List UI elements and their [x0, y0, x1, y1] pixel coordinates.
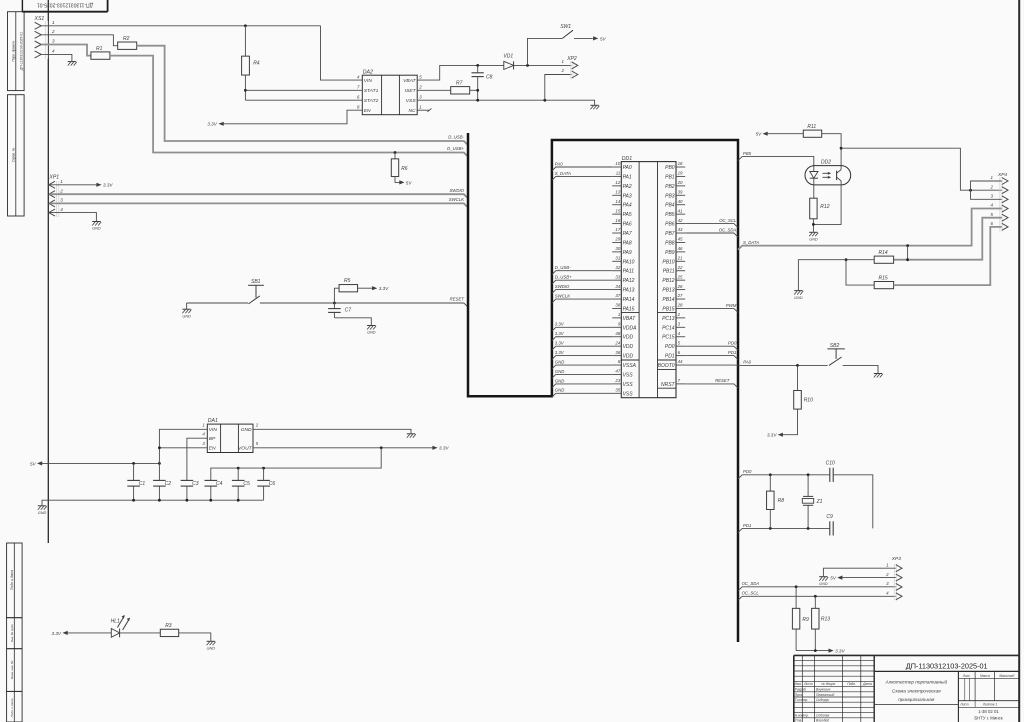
svg-text:3.3V: 3.3V	[555, 331, 565, 336]
svg-text:XP3: XP3	[891, 556, 901, 562]
wire PA0 net from border to SB2	[742, 364, 827, 366]
svg-text:HL1: HL1	[111, 619, 120, 625]
svg-text:Внукович: Внукович	[816, 688, 831, 692]
power arrow 5V at SW1	[593, 36, 598, 40]
svg-text:Н.контр.: Н.контр.	[795, 714, 809, 718]
wire R4 bottom to STAT2	[244, 75, 246, 100]
svg-text:NC: NC	[409, 108, 417, 114]
title block lit massa masshtab	[958, 671, 1019, 707]
svg-text:Утв.: Утв.	[795, 719, 803, 722]
svg-text:PA5: PA5	[623, 212, 632, 218]
wire C10 to right link	[833, 475, 873, 529]
node C8 top junction	[476, 64, 479, 67]
connector XP4	[990, 172, 1008, 232]
svg-text:XP2: XP2	[566, 56, 577, 62]
svg-text:C8: C8	[486, 75, 493, 81]
op-amp U-style IC DA2 charge controller	[357, 70, 422, 115]
svg-text:R6: R6	[401, 166, 408, 172]
svg-text:Схема электрическая: Схема электрическая	[892, 688, 941, 693]
node XS1 pin1 / R4 junction	[244, 24, 247, 27]
svg-text:23: 23	[614, 378, 620, 383]
wire R2 to D_USB- border entry	[137, 46, 468, 145]
wire STAT2	[245, 99, 362, 101]
node PD0 R8 tap	[769, 473, 772, 476]
wire R5 to 3.3V	[358, 287, 373, 289]
svg-text:БНТУ г. Минск: БНТУ г. Минск	[974, 715, 1002, 720]
wire R4 top	[244, 26, 246, 56]
node PD1 Z1 tap	[807, 527, 810, 530]
svg-text:OC_SCL: OC_SCL	[719, 218, 737, 223]
svg-text:Взам. инв. №: Взам. инв. №	[10, 660, 14, 679]
svg-text:OC_SDA: OC_SDA	[719, 227, 737, 232]
wire R10 bottom to 3.3V	[782, 409, 798, 435]
svg-text:DD2: DD2	[821, 160, 831, 166]
svg-text:C3: C3	[192, 481, 199, 487]
capacitor C4	[205, 480, 223, 500]
node cap bottom junction	[132, 499, 135, 502]
svg-text:15: 15	[615, 208, 620, 213]
svg-text:R1: R1	[96, 46, 103, 52]
node R14 R15 junction	[845, 258, 848, 261]
svg-text:PA13: PA13	[623, 288, 635, 294]
svg-text:R11: R11	[807, 124, 816, 130]
svg-text:VSS: VSS	[623, 382, 634, 388]
svg-text:4: 4	[886, 591, 889, 596]
ground at SB2	[874, 373, 882, 375]
wire R6 top	[394, 153, 396, 159]
svg-text:28: 28	[677, 303, 683, 308]
svg-text:5V: 5V	[830, 576, 837, 581]
capacitor C2	[153, 463, 171, 500]
svg-text:2: 2	[990, 184, 994, 189]
svg-text:OC_SCL: OC_SCL	[742, 591, 760, 596]
microcontroller DD1 body	[621, 156, 676, 398]
wire XS1 pin4 to ground	[41, 54, 72, 61]
node PD0 Z1 tap	[807, 473, 810, 476]
svg-text:GND: GND	[555, 369, 565, 374]
svg-text:13: 13	[615, 189, 620, 194]
capacitor C10	[826, 461, 835, 482]
wire DA1 VOUT to 3.3V	[253, 447, 433, 449]
wire STAT1	[245, 89, 362, 91]
wire DA2 ISET to R7	[417, 89, 451, 91]
svg-text:3.3V: 3.3V	[207, 122, 217, 127]
svg-text:S_DATA: S_DATA	[555, 171, 571, 176]
svg-text:25: 25	[677, 274, 683, 279]
capacitor C1	[127, 463, 145, 500]
svg-text:PB8: PB8	[665, 240, 675, 246]
svg-text:SWCLK: SWCLK	[555, 293, 571, 298]
svg-text:D_USB-: D_USB-	[555, 265, 571, 270]
resistor R14	[874, 250, 893, 263]
wire XP1 pin1 to 3.3V	[50, 184, 98, 186]
wire 5V rail to C2/VIN node	[42, 462, 160, 464]
svg-text:4: 4	[52, 48, 55, 53]
svg-text:R15: R15	[879, 276, 888, 282]
connector XP1	[48, 175, 63, 217]
wire R15 left leg	[846, 260, 874, 285]
svg-text:C2: C2	[165, 481, 172, 487]
svg-text:VSSA: VSSA	[623, 363, 637, 369]
crystal resonator Z1	[802, 475, 822, 529]
wire DD2 emitter down	[813, 185, 841, 225]
wire XP4 pin1 pin3 bracket	[971, 181, 1002, 199]
svg-text:5: 5	[991, 212, 994, 217]
wire OC_SDA border entry to XP3 pin3	[738, 587, 896, 591]
svg-text:RESET: RESET	[450, 297, 465, 302]
svg-text:PB14: PB14	[662, 297, 674, 303]
svg-text:PA0: PA0	[623, 165, 632, 171]
svg-text:44: 44	[678, 359, 683, 364]
svg-text:Пров.: Пров.	[795, 693, 804, 697]
svg-text:PB13: PB13	[662, 288, 674, 294]
svg-text:Подп.: Подп.	[847, 682, 856, 686]
svg-text:SB1: SB1	[251, 279, 261, 285]
svg-text:D_USB+: D_USB+	[447, 146, 464, 151]
svg-text:PB5: PB5	[743, 151, 752, 156]
svg-text:3.3V: 3.3V	[767, 433, 777, 438]
svg-text:20: 20	[677, 180, 683, 185]
svg-text:3: 3	[60, 198, 63, 203]
svg-text:48: 48	[615, 331, 620, 336]
svg-text:32: 32	[615, 265, 620, 270]
svg-text:11: 11	[616, 171, 621, 176]
svg-text:43: 43	[678, 227, 683, 232]
svg-text:6: 6	[678, 350, 681, 355]
title block left table grid	[794, 655, 874, 722]
node cap bottom junction	[158, 499, 161, 502]
svg-text:3.3V: 3.3V	[379, 286, 389, 291]
svg-text:VSS: VSS	[623, 372, 634, 378]
svg-text:DD1: DD1	[622, 156, 632, 162]
svg-text:5: 5	[419, 75, 422, 80]
ground at C7	[367, 325, 375, 327]
svg-text:D_USB+: D_USB+	[555, 275, 572, 280]
node XP4 pin2 junction	[969, 189, 972, 192]
node C2 VIN junction	[158, 462, 161, 465]
drawing frame left border	[47, 0, 49, 543]
svg-text:9: 9	[618, 322, 621, 327]
svg-text:C1: C1	[139, 481, 146, 487]
corner stamp box with inverted designation	[22, 0, 107, 12]
svg-text:R10: R10	[804, 398, 813, 404]
title block outline	[794, 655, 1019, 722]
svg-text:VIN: VIN	[364, 78, 373, 84]
svg-text:Подп. и дата: Подп. и дата	[10, 698, 14, 717]
LED HL1	[111, 619, 120, 638]
title block document name	[874, 679, 958, 705]
wire DA2 VSS rail to ground	[417, 100, 594, 105]
svg-text:PD1: PD1	[743, 523, 752, 528]
svg-text:5: 5	[256, 441, 259, 446]
svg-text:PA10: PA10	[623, 259, 635, 265]
svg-text:1: 1	[52, 20, 55, 25]
svg-text:7: 7	[678, 378, 681, 383]
left margin box Inv. no dubl.	[7, 618, 23, 649]
svg-text:PC15: PC15	[662, 335, 675, 341]
svg-text:14: 14	[615, 199, 620, 204]
svg-text:38: 38	[615, 303, 620, 308]
svg-text:GND: GND	[207, 647, 216, 651]
svg-text:PA7: PA7	[623, 231, 632, 237]
node S_DATA R14 tap	[906, 244, 909, 247]
svg-text:XP1: XP1	[48, 175, 59, 181]
svg-text:2: 2	[561, 68, 565, 73]
resistor R5	[339, 278, 358, 292]
svg-text:3: 3	[678, 322, 681, 327]
resistor R15	[874, 276, 893, 289]
resistor R13	[812, 596, 831, 650]
node C1 tap	[132, 462, 135, 465]
svg-text:45: 45	[678, 237, 683, 242]
svg-text:R14: R14	[879, 250, 888, 256]
node PD1 R8 tap	[769, 527, 772, 530]
wire SB1 to ground	[186, 303, 188, 309]
svg-text:36: 36	[615, 350, 620, 355]
wire DD1 PB7 to OC_SDA border entry	[685, 233, 738, 237]
svg-text:1: 1	[562, 59, 565, 64]
wire XS1 pin2 to R2	[41, 35, 117, 46]
power arrow 3.3V at HL1	[63, 631, 68, 635]
node cap bottom junction	[209, 499, 212, 502]
svg-text:Разраб.: Разраб.	[795, 688, 807, 692]
svg-text:C9: C9	[826, 514, 833, 520]
svg-text:30: 30	[615, 246, 620, 251]
wire DD1 NRST to RESET border entry	[685, 384, 738, 388]
connector XP2	[561, 56, 578, 79]
svg-text:ДП-1130312103-2025-01: ДП-1130312103-2025-01	[37, 1, 93, 7]
svg-text:S_DATA: S_DATA	[743, 240, 759, 245]
svg-text:PA1: PA1	[623, 174, 632, 180]
svg-text:Лист: Лист	[959, 703, 969, 707]
svg-text:Z1: Z1	[816, 499, 823, 505]
svg-text:Подп. и дата: Подп. и дата	[10, 570, 14, 590]
svg-text:PD0: PD0	[728, 340, 737, 345]
svg-text:SW1: SW1	[560, 24, 571, 30]
wire capacitor bottom ground bus	[42, 500, 264, 505]
svg-text:Лист: Лист	[803, 682, 813, 686]
resistor R2	[118, 36, 137, 49]
svg-text:STAT1: STAT1	[364, 88, 379, 94]
svg-text:GND: GND	[819, 582, 828, 586]
LED HL1 light arrows	[117, 615, 130, 630]
wire DA1 EN to VIN riser	[159, 447, 207, 449]
svg-text:VDDA: VDDA	[623, 325, 638, 331]
svg-text:VBAT: VBAT	[623, 316, 637, 322]
svg-text:NRST: NRST	[661, 382, 676, 388]
svg-text:EN: EN	[364, 108, 371, 114]
svg-text:VBAT: VBAT	[403, 78, 416, 84]
svg-text:2: 2	[885, 572, 889, 577]
wire C4-C6 top bus	[211, 448, 381, 481]
svg-text:ДП-1130312103-2025-01: ДП-1130312103-2025-01	[20, 32, 24, 71]
wire XP1 pin2 SWDIO to border	[50, 194, 469, 198]
svg-text:R2: R2	[123, 36, 130, 42]
wire DD1 PD1 border entry	[685, 356, 738, 360]
node VD1 SW1 junction	[526, 64, 529, 67]
wire DA2 VBAT up to 5V rail	[417, 65, 504, 80]
capacitor C6	[257, 468, 275, 500]
svg-text:3: 3	[202, 441, 205, 446]
svg-text:6: 6	[357, 95, 360, 100]
svg-text:C6: C6	[269, 481, 276, 487]
resistor R1	[91, 46, 110, 59]
svg-text:34: 34	[615, 284, 620, 289]
svg-text:PD0: PD0	[665, 344, 675, 350]
wire 5V to R11	[767, 133, 803, 135]
svg-text:1-38 02 01: 1-38 02 01	[978, 709, 999, 714]
svg-text:18: 18	[678, 161, 683, 166]
svg-text:3: 3	[886, 581, 889, 586]
svg-text:GND: GND	[794, 296, 803, 300]
svg-text:19: 19	[678, 171, 683, 176]
svg-text:PA12: PA12	[623, 278, 635, 284]
svg-text:Масштаб: Масштаб	[999, 674, 1014, 678]
svg-text:26: 26	[677, 284, 683, 289]
wire DD2 LED cathode to R12	[813, 185, 815, 198]
left margin box Podp. i data lower	[7, 691, 23, 722]
node C5 top tap	[237, 467, 240, 470]
node OC_SDA R9 tap	[795, 585, 798, 588]
svg-text:10: 10	[615, 161, 620, 166]
svg-text:принципиальная: принципиальная	[898, 697, 935, 702]
node ISET junction	[476, 89, 479, 92]
svg-text:XS1: XS1	[34, 16, 45, 22]
svg-text:PB7: PB7	[665, 231, 675, 237]
node VSS C8 junction	[476, 99, 479, 102]
svg-text:2: 2	[59, 188, 63, 193]
svg-text:Перв. примен.: Перв. примен.	[12, 40, 16, 61]
power arrow 5V at capacitor rail	[37, 461, 42, 465]
svg-text:Сидорук: Сидорук	[816, 698, 829, 702]
svg-text:2: 2	[255, 423, 259, 428]
ground at R14 node	[794, 290, 802, 292]
svg-text:PC13: PC13	[662, 316, 675, 322]
left margin box Sprav. no.	[8, 95, 25, 216]
resistor R3	[160, 623, 178, 636]
svg-text:GND: GND	[555, 378, 565, 383]
wire XP2 pin2 to VSS rail	[545, 75, 572, 101]
svg-text:C4: C4	[216, 481, 223, 487]
svg-text:31: 31	[615, 256, 620, 261]
svg-text:STAT2: STAT2	[364, 98, 379, 104]
wire XP1 pin4 to ground	[50, 213, 97, 222]
svg-text:PB4: PB4	[665, 203, 675, 209]
svg-text:27: 27	[677, 293, 683, 298]
left margin box Podp. i data upper	[7, 543, 23, 618]
svg-text:GND: GND	[38, 511, 47, 515]
svg-text:46: 46	[678, 246, 683, 251]
node PA0 R10 junction	[796, 364, 799, 367]
svg-text:4: 4	[357, 75, 360, 80]
wire R11 to DD2 collector	[822, 134, 842, 170]
svg-text:PA8: PA8	[623, 240, 632, 246]
svg-text:R8: R8	[778, 498, 785, 504]
DD1 right pin names and stubs	[658, 161, 686, 388]
svg-text:PD1: PD1	[728, 350, 737, 355]
svg-text:PA9: PA9	[623, 250, 632, 256]
svg-text:GND: GND	[182, 314, 191, 318]
svg-text:5: 5	[678, 340, 681, 345]
svg-text:Листов 1: Листов 1	[982, 703, 997, 707]
svg-text:BOOT0: BOOT0	[658, 363, 675, 369]
power arrow 3.3V at R10	[778, 433, 783, 437]
svg-text:PA4: PA4	[623, 203, 632, 209]
wire collector node to XP4 pin2	[841, 148, 1002, 190]
power arrow 3.3V at DA2 EN	[219, 122, 224, 126]
node R11 XP4 junction	[840, 147, 843, 150]
svg-text:1: 1	[60, 179, 63, 184]
node VOUT C4-C6 junction	[380, 446, 383, 449]
svg-text:22: 22	[677, 265, 683, 270]
svg-text:3.3V: 3.3V	[52, 631, 62, 636]
svg-text:VSS: VSS	[623, 391, 634, 397]
svg-text:C7: C7	[345, 308, 352, 314]
svg-text:41: 41	[678, 208, 683, 213]
wire R15 right to XP4 pin6	[894, 227, 1002, 285]
svg-text:39: 39	[678, 189, 683, 194]
svg-text:PD0: PD0	[743, 469, 752, 474]
svg-text:VD1: VD1	[503, 54, 513, 60]
svg-text:PA15: PA15	[623, 306, 635, 312]
svg-text:R4: R4	[253, 60, 260, 66]
resistor R11	[803, 124, 821, 137]
svg-text:3.3V: 3.3V	[555, 322, 565, 327]
svg-text:SWCLK: SWCLK	[449, 197, 465, 202]
wires DD1 left side to module border	[552, 161, 612, 397]
svg-text:3: 3	[52, 39, 55, 44]
resistor R9	[792, 587, 809, 651]
svg-text:Инв. № дубл.: Инв. № дубл.	[10, 624, 14, 643]
power arrow 3.3V at XP1 pin1	[96, 183, 101, 187]
wire C7 to ground	[334, 318, 371, 325]
svg-text:7: 7	[357, 85, 360, 90]
connector XS1	[34, 16, 56, 59]
wire R12 bottom to ground	[812, 219, 814, 232]
ground at R12	[809, 231, 817, 233]
drawing frame right border	[1018, 0, 1020, 722]
svg-text:Справ. №: Справ. №	[12, 147, 16, 162]
svg-text:DA2: DA2	[363, 70, 373, 76]
svg-text:5V: 5V	[30, 461, 37, 466]
node EN VIN junction	[158, 446, 161, 449]
node OC_SCL R13 tap	[814, 595, 817, 598]
svg-text:4: 4	[202, 432, 205, 437]
push button SB2	[827, 343, 844, 366]
svg-text:5V: 5V	[756, 132, 763, 137]
svg-text:24: 24	[614, 340, 620, 345]
node RESET R5 C7 junction	[333, 302, 336, 305]
svg-text:VSS: VSS	[406, 98, 417, 104]
node C6 top tap	[262, 467, 265, 470]
svg-text:Соболев: Соболев	[816, 714, 830, 718]
ground at SB1	[182, 308, 190, 310]
svg-text:DA1: DA1	[208, 418, 218, 424]
wire XS1 pin1 to DA2 VIN net	[41, 25, 320, 27]
svg-text:PD1: PD1	[665, 354, 675, 360]
wire XP1 pin3 SWCLK to border	[50, 203, 469, 207]
svg-text:Масса: Масса	[980, 674, 990, 678]
wire R9 R13 bottoms to 3.3V	[796, 650, 829, 652]
power arrow 3.3V at R9 R13	[829, 649, 834, 653]
svg-text:PA6: PA6	[623, 222, 632, 228]
wire OC_SCL border entry to XP3 pin4	[738, 596, 896, 600]
wire R14 left leg	[846, 259, 874, 261]
wire 3.3V to HL1	[67, 632, 111, 634]
svg-text:GND: GND	[367, 331, 376, 335]
svg-text:ДП-1130312103-2025-01: ДП-1130312103-2025-01	[906, 661, 988, 670]
svg-text:R13: R13	[821, 616, 830, 622]
